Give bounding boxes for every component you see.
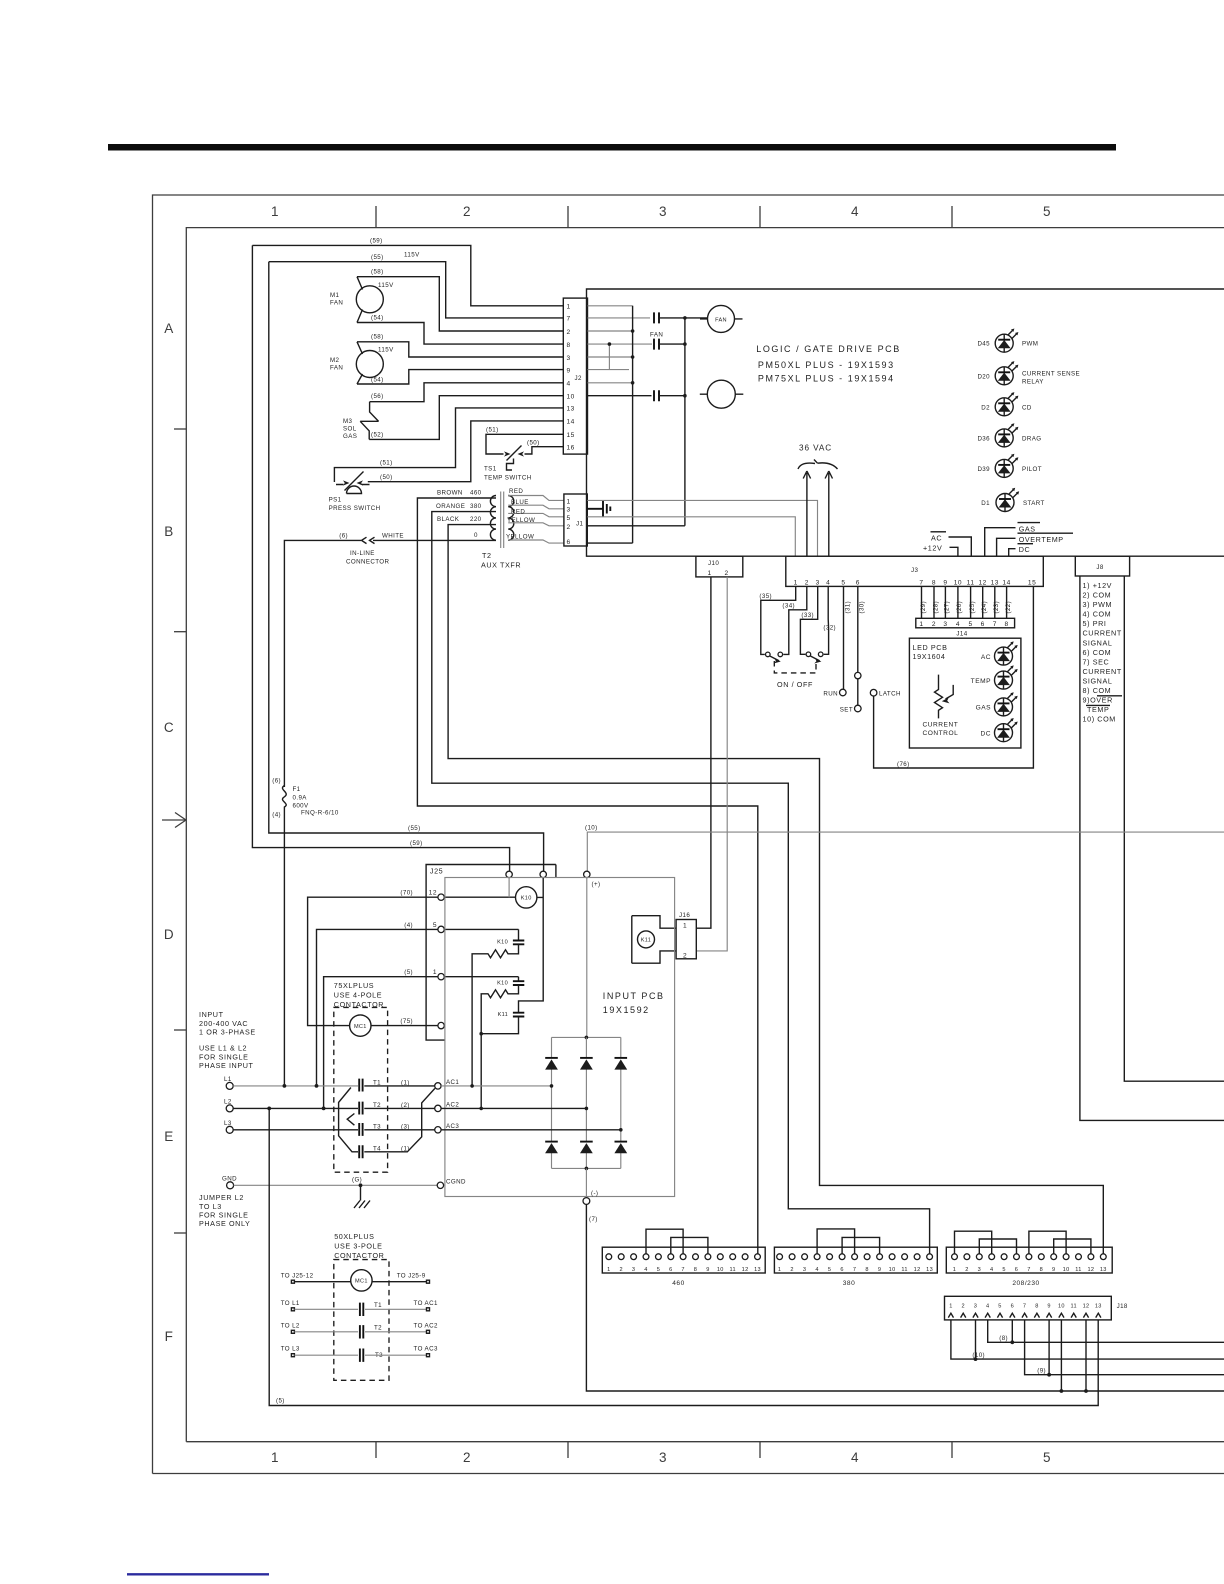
svg-text:1: 1 xyxy=(708,570,712,577)
svg-text:2: 2 xyxy=(567,329,571,336)
svg-text:6: 6 xyxy=(567,539,571,546)
svg-text:PHASE ONLY: PHASE ONLY xyxy=(199,1219,250,1228)
footer link line xyxy=(127,1573,269,1575)
svg-text:J3: J3 xyxy=(911,567,918,574)
svg-text:12: 12 xyxy=(429,890,437,897)
svg-text:D: D xyxy=(164,927,174,942)
svg-text:2: 2 xyxy=(683,952,687,959)
svg-text:RED: RED xyxy=(511,509,525,516)
transformer T2 primary winding xyxy=(490,496,496,541)
svg-text:SOL: SOL xyxy=(343,426,357,433)
jumper link pins 7-10 208/230 xyxy=(1029,1231,1066,1254)
wire net 35 J3-1 to switch xyxy=(761,586,796,654)
svg-text:RELAY: RELAY xyxy=(1022,379,1044,386)
svg-text:(27): (27) xyxy=(944,601,951,614)
svg-text:3: 3 xyxy=(816,579,820,586)
row tick E/F xyxy=(174,1232,186,1234)
svg-text:13: 13 xyxy=(926,1267,933,1273)
svg-text:J18: J18 xyxy=(1117,1303,1128,1310)
ground input GND xyxy=(227,1182,234,1189)
secondary lead YELLOW to J1-6 xyxy=(508,540,564,543)
motor M1 FAN xyxy=(356,286,383,313)
svg-text:7: 7 xyxy=(567,316,571,323)
wire net 54 M2 fan return xyxy=(357,370,563,384)
svg-text:7: 7 xyxy=(853,1267,856,1273)
svg-text:12: 12 xyxy=(1083,1303,1090,1309)
vertical tie to J1-2 xyxy=(684,318,686,526)
primary tap ORANGE 380 xyxy=(432,512,930,1254)
svg-text:TO L3: TO L3 xyxy=(281,1346,300,1353)
motor M2 FAN xyxy=(356,351,383,378)
svg-text:115V: 115V xyxy=(378,347,394,354)
svg-text:FAN: FAN xyxy=(650,332,663,339)
LED GAS xyxy=(995,692,1018,716)
wire net 51 to pressure switch xyxy=(334,408,563,482)
wire J1-6 up to cap bus xyxy=(587,542,632,544)
J25 pin 75 xyxy=(438,1022,444,1028)
svg-text:ON / OFF: ON / OFF xyxy=(777,680,813,689)
svg-text:PM50XL PLUS - 19X1593: PM50XL PLUS - 19X1593 xyxy=(758,360,895,370)
svg-text:T2: T2 xyxy=(374,1325,382,1332)
wire J1-5 to J3-1 xyxy=(587,517,795,556)
svg-text:GAS: GAS xyxy=(1019,524,1036,533)
plus bus into bridge xyxy=(586,878,588,1038)
wire net 34 J3-2 to switch xyxy=(783,586,807,654)
svg-text:4: 4 xyxy=(986,1303,989,1309)
svg-text:ORANGE: ORANGE xyxy=(436,503,465,510)
fuse F1 xyxy=(282,786,286,1086)
svg-text:(2): (2) xyxy=(401,1102,410,1109)
svg-text:AC: AC xyxy=(931,534,942,543)
wire net 52 solenoid return xyxy=(369,396,563,440)
svg-text:TO AC3: TO AC3 xyxy=(414,1346,438,1353)
svg-text:K10: K10 xyxy=(497,940,508,946)
wire L3 row xyxy=(233,1129,358,1131)
svg-text:75XLPLUS: 75XLPLUS xyxy=(334,981,374,990)
svg-text:J1: J1 xyxy=(576,521,583,528)
svg-text:PS1: PS1 xyxy=(329,497,342,504)
svg-text:(51): (51) xyxy=(486,427,499,434)
connector J3 xyxy=(786,556,1044,586)
J2 pin 1 stub xyxy=(588,305,633,307)
svg-text:(7): (7) xyxy=(589,1216,598,1223)
svg-text:3: 3 xyxy=(567,355,571,362)
bridge top rail xyxy=(552,1036,621,1038)
svg-text:(34): (34) xyxy=(782,602,795,609)
svg-text:D39: D39 xyxy=(977,466,990,473)
svg-text:1: 1 xyxy=(433,969,437,976)
svg-text:0.9A: 0.9A xyxy=(293,795,308,802)
column tick top 1/2 xyxy=(375,206,377,228)
svg-text:8: 8 xyxy=(567,342,571,349)
svg-text:(8): (8) xyxy=(999,1335,1008,1342)
potentiometer CURRENT CONTROL xyxy=(935,675,943,719)
net 55 drop through K10 right to K11 cap xyxy=(519,878,544,1013)
svg-text:1: 1 xyxy=(794,579,798,586)
J2 pin 3 stub xyxy=(588,356,633,358)
svg-text:3: 3 xyxy=(978,1267,981,1273)
column tick bottom 4/5 xyxy=(951,1442,953,1458)
wire net 31 J3-5 to RUN xyxy=(843,586,845,689)
svg-text:K10: K10 xyxy=(497,980,508,986)
svg-text:4) COM: 4) COM xyxy=(1083,610,1112,619)
J25 pin 1 xyxy=(438,974,444,980)
svg-text:4: 4 xyxy=(851,1450,859,1465)
svg-text:(76): (76) xyxy=(897,761,910,768)
svg-text:L1: L1 xyxy=(224,1076,232,1083)
svg-text:2: 2 xyxy=(961,1303,964,1309)
svg-text:50XLPLUS: 50XLPLUS xyxy=(334,1232,374,1241)
svg-text:(56): (56) xyxy=(371,393,384,400)
column tick top 3/4 xyxy=(759,206,761,228)
jumper pin8 to pin9 xyxy=(608,344,610,370)
svg-text:DC: DC xyxy=(1019,545,1031,554)
wire T3 to AC3 xyxy=(364,1129,434,1131)
svg-text:OVERTEMP: OVERTEMP xyxy=(1019,535,1064,544)
svg-text:2: 2 xyxy=(463,204,471,219)
svg-text:D20: D20 xyxy=(977,373,990,380)
wire net 55 top xyxy=(269,262,564,318)
svg-text:D1: D1 xyxy=(981,500,990,507)
svg-text:7: 7 xyxy=(681,1267,684,1273)
J25 pin 13 circle net 59 xyxy=(506,871,512,877)
svg-text:(24): (24) xyxy=(981,601,988,614)
svg-text:(28): (28) xyxy=(932,601,939,614)
minus output pin xyxy=(585,1168,587,1197)
row tick A/B xyxy=(174,428,186,430)
svg-text:(26): (26) xyxy=(956,601,963,614)
wire J10-1 to J16-1 xyxy=(696,577,711,928)
svg-text:10: 10 xyxy=(567,394,575,401)
wire net 59 left drop to J25 xyxy=(252,245,509,871)
svg-text:220: 220 xyxy=(470,516,482,523)
svg-text:8: 8 xyxy=(1005,621,1009,628)
wires J3 7-14 to J14 with net labels 29-22 xyxy=(921,586,923,618)
break point circle xyxy=(855,672,861,678)
J8 cable strip right xyxy=(1124,576,1224,1081)
svg-text:(10): (10) xyxy=(972,1352,985,1359)
solenoid M3 SOL GAS xyxy=(360,402,378,440)
wire net 55 left drop to J25 xyxy=(269,262,544,872)
svg-text:5: 5 xyxy=(1043,204,1051,219)
svg-text:MC1: MC1 xyxy=(355,1279,368,1285)
svg-text:(+): (+) xyxy=(592,881,601,888)
svg-text:11: 11 xyxy=(729,1267,735,1273)
LED D36 DRAG xyxy=(995,423,1018,447)
svg-text:(58): (58) xyxy=(371,269,384,276)
svg-text:1 OR 3-PHASE: 1 OR 3-PHASE xyxy=(199,1028,256,1037)
svg-text:SIGNAL: SIGNAL xyxy=(1083,638,1113,647)
svg-text:115V: 115V xyxy=(404,252,420,259)
ground at J1 pin 3 xyxy=(587,508,603,510)
wire net 10 long horizontal xyxy=(587,832,1224,871)
svg-text:12: 12 xyxy=(914,1267,921,1273)
INPUT PCB 19X1592 box xyxy=(445,878,675,1197)
wire net 9 J18 pins 7,9 xyxy=(1025,1320,1224,1375)
svg-text:(9): (9) xyxy=(1037,1368,1046,1375)
svg-text:PRESS SWITCH: PRESS SWITCH xyxy=(329,505,381,512)
svg-text:(33): (33) xyxy=(801,612,814,619)
wire net 30 J3-6 to SET xyxy=(857,586,859,705)
LED D2 CD xyxy=(995,392,1018,416)
svg-text:2: 2 xyxy=(932,621,936,628)
svg-text:10: 10 xyxy=(954,579,962,586)
svg-text:CURRENT SENSE: CURRENT SENSE xyxy=(1022,371,1080,378)
svg-text:LOGIC / GATE DRIVE PCB: LOGIC / GATE DRIVE PCB xyxy=(756,344,900,354)
svg-text:(50): (50) xyxy=(527,440,540,447)
svg-text:TEMP SWITCH: TEMP SWITCH xyxy=(484,475,532,482)
wire net 5 L2 to bottom rail xyxy=(269,1108,1098,1405)
transformer T2 core xyxy=(500,492,502,549)
contact T1 xyxy=(359,1079,362,1092)
svg-text:J16: J16 xyxy=(679,912,690,919)
input pcb plus pin circle xyxy=(584,871,590,877)
svg-text:PILOT: PILOT xyxy=(1022,466,1042,473)
svg-text:4: 4 xyxy=(956,621,960,628)
row tick C/D (arrow marker) xyxy=(162,813,186,828)
bridge column 2 xyxy=(585,1037,587,1168)
svg-text:GAS: GAS xyxy=(976,705,992,712)
wire L2 row xyxy=(233,1107,358,1109)
svg-text:RUN: RUN xyxy=(823,690,838,697)
wire net 51 to temp switch xyxy=(486,434,563,454)
connector J25 outline xyxy=(426,865,556,1041)
svg-text:6: 6 xyxy=(669,1267,672,1273)
wire AC2 to bridge xyxy=(441,1107,586,1109)
svg-text:5: 5 xyxy=(567,515,571,522)
jumper T4 to AC1 right xyxy=(364,1088,435,1151)
svg-text:2: 2 xyxy=(567,524,571,531)
contactor coil MC1 (3-pole) xyxy=(351,1270,372,1291)
wire net 4 J25-5 to L1 xyxy=(317,929,438,1086)
diode D bottom col2 xyxy=(580,1141,593,1143)
svg-text:8) COM: 8) COM xyxy=(1083,686,1112,695)
svg-text:5: 5 xyxy=(969,621,973,628)
svg-text:10: 10 xyxy=(1063,1267,1070,1273)
relay K11 body and coil xyxy=(632,916,676,964)
svg-text:14: 14 xyxy=(567,419,575,426)
jumper T2 T3 bracket xyxy=(347,1114,354,1126)
svg-text:START: START xyxy=(1023,500,1045,507)
svg-text:FNQ-R-6/10: FNQ-R-6/10 xyxy=(301,810,339,817)
svg-text:JUMPER L2: JUMPER L2 xyxy=(199,1193,244,1202)
LED AC xyxy=(995,641,1018,665)
svg-text:2: 2 xyxy=(725,570,729,577)
svg-text:(G): (G) xyxy=(352,1177,362,1184)
svg-text:2: 2 xyxy=(619,1267,622,1273)
svg-text:TO J25-12: TO J25-12 xyxy=(281,1272,314,1279)
svg-text:1: 1 xyxy=(953,1267,956,1273)
svg-text:8: 8 xyxy=(865,1267,868,1273)
svg-text:(50): (50) xyxy=(380,474,393,481)
svg-text:L2: L2 xyxy=(224,1099,232,1106)
svg-text:13: 13 xyxy=(991,579,999,586)
wire J10-2 to J16-2 xyxy=(696,577,727,951)
jumper link pins 4-7 380 xyxy=(817,1229,855,1254)
svg-text:USE L1 & L2: USE L1 & L2 xyxy=(199,1044,247,1053)
pressure switch PS1 xyxy=(336,472,370,491)
svg-text:8: 8 xyxy=(694,1267,697,1273)
svg-text:B: B xyxy=(164,524,174,539)
J25 pin 14 circle net 55 xyxy=(540,871,546,877)
svg-text:MC1: MC1 xyxy=(354,1024,367,1030)
LED D45 PWM xyxy=(995,329,1018,353)
svg-text:K11: K11 xyxy=(641,938,651,944)
svg-text:7: 7 xyxy=(993,621,997,628)
LED PCB 19X1604 box xyxy=(909,638,1021,748)
svg-text:7: 7 xyxy=(1023,1303,1026,1309)
svg-text:15: 15 xyxy=(1028,579,1036,586)
svg-text:(5): (5) xyxy=(276,1398,285,1405)
svg-text:1: 1 xyxy=(949,1303,952,1309)
svg-text:(6): (6) xyxy=(272,778,281,785)
connector J8 xyxy=(1075,556,1129,576)
svg-text:(55): (55) xyxy=(408,825,421,832)
svg-text:(35): (35) xyxy=(759,593,772,600)
svg-text:L3: L3 xyxy=(224,1120,232,1127)
column tick bottom 2/3 xyxy=(567,1442,569,1458)
wire net 58 M1 fan hot xyxy=(357,277,563,331)
column tick top 4/5 xyxy=(951,206,953,228)
svg-text:19X1592: 19X1592 xyxy=(603,1005,650,1015)
svg-text:8: 8 xyxy=(932,579,936,586)
row tick B/C xyxy=(174,631,186,633)
svg-text:9: 9 xyxy=(943,579,947,586)
svg-text:D36: D36 xyxy=(977,435,990,442)
wire net 58 M2 fan hot xyxy=(357,342,563,357)
LED TEMP xyxy=(995,665,1018,689)
contactor MC1 (3-pole) dashed outline xyxy=(334,1260,389,1381)
svg-text:BLUE: BLUE xyxy=(511,499,529,506)
svg-text:(59): (59) xyxy=(370,238,383,245)
secondary lead YELLOW to J1-2 xyxy=(508,523,564,526)
diode D top col3 xyxy=(615,1057,628,1059)
logic gate drive pcb outline xyxy=(587,289,1224,556)
svg-text:F1: F1 xyxy=(293,786,301,793)
svg-text:(1): (1) xyxy=(401,1080,410,1087)
svg-text:AC: AC xyxy=(981,654,991,661)
svg-text:1: 1 xyxy=(271,204,279,219)
svg-text:2: 2 xyxy=(805,579,809,586)
contactor coil MC1 xyxy=(350,1015,371,1036)
svg-text:M2: M2 xyxy=(330,357,340,364)
svg-text:D45: D45 xyxy=(977,341,990,348)
svg-text:2: 2 xyxy=(965,1267,968,1273)
on/off switch pole 2 xyxy=(806,652,811,657)
svg-text:CURRENT: CURRENT xyxy=(1083,667,1122,676)
svg-text:PWM: PWM xyxy=(1022,341,1038,348)
svg-text:K11: K11 xyxy=(498,1012,508,1018)
jumper link pins 3-6 208/230 xyxy=(979,1239,1016,1254)
svg-text:TEMP: TEMP xyxy=(1087,705,1109,714)
svg-text:(3): (3) xyxy=(401,1124,410,1131)
svg-text:1: 1 xyxy=(567,304,571,311)
connector J14 xyxy=(916,618,1015,628)
snubber K10 no2 resistor xyxy=(481,986,518,1109)
diode D bottom col1 xyxy=(545,1141,558,1143)
wire J1-1 to J3-3 xyxy=(587,500,817,556)
svg-text:(58): (58) xyxy=(371,334,384,341)
wire T1 to AC1 xyxy=(364,1085,434,1087)
wire AC3 to bridge xyxy=(441,1129,621,1131)
svg-text:12: 12 xyxy=(1087,1267,1094,1273)
J25 pin 5 xyxy=(438,926,444,932)
SET test point xyxy=(855,705,862,712)
svg-text:15: 15 xyxy=(567,432,575,439)
jumper link pins 9-12 208/230 xyxy=(1054,1239,1091,1254)
svg-text:+12V: +12V xyxy=(923,544,942,553)
wire net 7 minus rail to J18 xyxy=(586,1204,1224,1391)
wire net 56 gas solenoid xyxy=(370,383,564,402)
svg-text:CURRENT: CURRENT xyxy=(923,722,959,729)
input terminal L3 xyxy=(226,1126,233,1133)
36 VAC arrow into J3-2 xyxy=(803,471,810,556)
chassis ground symbol xyxy=(354,1185,370,1208)
svg-text:3: 3 xyxy=(974,1303,977,1309)
svg-text:YELLOW: YELLOW xyxy=(506,534,534,541)
svg-text:36 VAC: 36 VAC xyxy=(799,444,832,453)
svg-text:600V: 600V xyxy=(293,803,310,810)
svg-text:INPUT PCB: INPUT PCB xyxy=(603,991,665,1001)
svg-text:9: 9 xyxy=(567,367,571,374)
diode D bottom col3 xyxy=(615,1141,628,1143)
snubber K11 cap xyxy=(513,1013,524,1017)
svg-text:7: 7 xyxy=(1027,1267,1030,1273)
svg-text:115V: 115V xyxy=(378,282,394,289)
capacitor C fan1 xyxy=(654,312,659,323)
svg-text:13: 13 xyxy=(567,406,575,413)
secondary lead BLUE to J1-3 xyxy=(508,505,564,509)
jumper link pins 4-7 460 xyxy=(646,1229,683,1254)
svg-text:(32): (32) xyxy=(823,625,836,632)
secondary lead RED to J1-5 xyxy=(508,513,564,516)
capacitor C fan mid xyxy=(654,339,659,350)
svg-text:PM75XL PLUS - 19X1594: PM75XL PLUS - 19X1594 xyxy=(758,374,895,384)
connector J16 xyxy=(676,920,696,959)
svg-text:GAS: GAS xyxy=(343,433,357,440)
wire net 70 J25-12 to MC1 xyxy=(308,897,438,1025)
jumper link pins 6-9 380 xyxy=(842,1237,880,1253)
svg-text:LED PCB: LED PCB xyxy=(913,643,948,652)
svg-text:11: 11 xyxy=(1070,1303,1076,1309)
svg-text:YELLOW: YELLOW xyxy=(507,517,535,524)
svg-text:T2: T2 xyxy=(482,551,492,560)
svg-text:1: 1 xyxy=(607,1267,610,1273)
svg-text:4: 4 xyxy=(990,1267,993,1273)
J25 pin 12 xyxy=(438,894,444,900)
svg-text:6: 6 xyxy=(840,1267,843,1273)
svg-text:380: 380 xyxy=(470,503,482,510)
net 59 into K10 feed xyxy=(508,878,510,898)
bridge column 3 xyxy=(620,1037,622,1168)
svg-text:TO AC2: TO AC2 xyxy=(414,1322,438,1329)
svg-text:3) PWM: 3) PWM xyxy=(1083,600,1113,609)
secondary lead RED to J1-1 xyxy=(508,496,564,501)
svg-text:LATCH: LATCH xyxy=(879,691,901,698)
svg-text:CONTACTOR: CONTACTOR xyxy=(334,1251,384,1260)
primary tap BLACK 220 xyxy=(448,525,1103,1254)
svg-text:J8: J8 xyxy=(1096,564,1103,571)
wire net 59 top xyxy=(252,245,563,305)
svg-text:3: 3 xyxy=(659,1450,667,1465)
jumper link pins 1-4 208/230 xyxy=(955,1231,992,1254)
svg-text:5: 5 xyxy=(841,579,845,586)
svg-text:IN-LINE: IN-LINE xyxy=(350,550,375,557)
connector J1 xyxy=(564,494,587,546)
svg-text:(29): (29) xyxy=(920,601,927,614)
svg-text:D2: D2 xyxy=(981,404,990,411)
svg-text:5: 5 xyxy=(1043,1450,1051,1465)
